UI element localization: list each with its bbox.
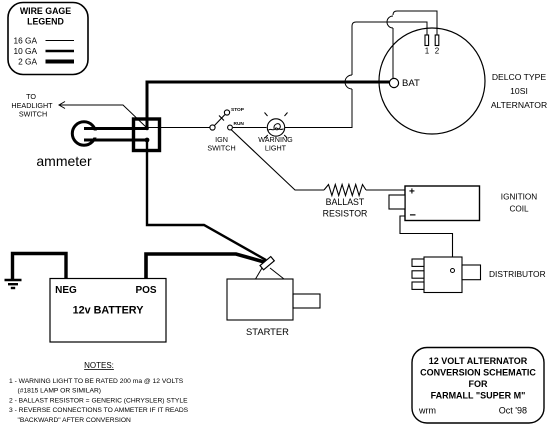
ballast resistor bbox=[324, 185, 366, 196]
svg-text:SWITCH: SWITCH bbox=[19, 110, 47, 119]
svg-text:16 GA: 16 GA bbox=[13, 36, 37, 46]
node upper (headlight/ign junction) bbox=[145, 127, 149, 131]
node lower (ammeter/starter junction) bbox=[145, 138, 150, 143]
ground symbol bbox=[5, 279, 22, 282]
svg-text:FOR: FOR bbox=[469, 379, 488, 389]
legend line 2 GA bbox=[46, 60, 75, 64]
svg-text:Oct '98: Oct '98 bbox=[499, 406, 527, 416]
starter body bbox=[227, 279, 293, 320]
terminal block bbox=[134, 119, 160, 151]
terminal 2 bbox=[435, 35, 439, 46]
svg-text:1: 1 bbox=[425, 47, 430, 56]
svg-text:FARMALL "SUPER M": FARMALL "SUPER M" bbox=[431, 391, 526, 401]
starter post mount lines bbox=[256, 268, 263, 279]
wire hop over BAT wire bbox=[345, 75, 352, 89]
warning light filament bbox=[268, 124, 283, 131]
svg-text:1 - WARNING LIGHT TO BE RATED: 1 - WARNING LIGHT TO BE RATED 200 ma @ 1… bbox=[9, 378, 184, 385]
svg-text:3 - REVERSE CONNECTIONS TO AMM: 3 - REVERSE CONNECTIONS TO AMMETER IF IT… bbox=[9, 407, 189, 414]
distributor contact bbox=[451, 269, 455, 273]
svg-text:WIRE GAGE: WIRE GAGE bbox=[20, 6, 71, 16]
svg-text:TO: TO bbox=[26, 92, 36, 101]
warning light bbox=[267, 119, 284, 136]
wire terminal 2 to BAT sense bbox=[393, 11, 437, 35]
svg-text:12v BATTERY: 12v BATTERY bbox=[73, 305, 145, 317]
svg-text:"BACKWARD" AFTER CONVERSION: "BACKWARD" AFTER CONVERSION bbox=[18, 417, 132, 424]
wire NEG to ground (2 GA) bbox=[13, 254, 67, 280]
ignition coil box bbox=[405, 186, 480, 221]
svg-text:RESISTOR: RESISTOR bbox=[323, 209, 368, 219]
svg-text:STOP: STOP bbox=[231, 107, 245, 113]
svg-text:STARTER: STARTER bbox=[246, 326, 289, 337]
wire warning light to terminal 1 (right, up, top run) bbox=[285, 89, 352, 128]
svg-text:+: + bbox=[409, 187, 415, 198]
svg-text:POS: POS bbox=[135, 285, 156, 296]
svg-text:BALLAST: BALLAST bbox=[326, 197, 365, 207]
svg-text:DELCO TYPE: DELCO TYPE bbox=[492, 72, 547, 82]
title block bbox=[412, 348, 544, 424]
svg-text:BAT: BAT bbox=[402, 78, 420, 89]
svg-text:SWITCH: SWITCH bbox=[207, 144, 235, 153]
svg-text:DISTRIBUTOR: DISTRIBUTOR bbox=[489, 269, 546, 279]
svg-text:12 VOLT ALTERNATOR: 12 VOLT ALTERNATOR bbox=[429, 356, 528, 366]
alternator body bbox=[379, 28, 485, 134]
wire block to ign switch bbox=[147, 127, 210, 129]
ign switch stop terminal bbox=[224, 110, 229, 115]
wire gage legend box bbox=[8, 3, 88, 75]
svg-text:NEG: NEG bbox=[55, 285, 77, 296]
svg-text:10 GA: 10 GA bbox=[13, 46, 37, 56]
ammeter bbox=[72, 122, 95, 145]
starter terminal post bbox=[260, 257, 274, 270]
distributor right tab bbox=[462, 265, 481, 280]
wire to headlight switch (arrow) bbox=[59, 102, 65, 109]
svg-text:ALTERNATOR: ALTERNATOR bbox=[491, 100, 547, 110]
ign switch lever bbox=[214, 115, 225, 127]
distributor prongs bbox=[412, 259, 424, 266]
wire POS to starter (2 GA) bbox=[146, 254, 266, 279]
legend line 10 GA bbox=[46, 50, 75, 53]
wire ammeter top to junction bbox=[84, 127, 147, 130]
wire ammeter bottom to junction bbox=[84, 139, 147, 142]
BAT terminal bbox=[389, 78, 398, 87]
wire resistor to coil + bbox=[366, 189, 405, 191]
battery box bbox=[50, 279, 166, 343]
svg-text:LIGHT: LIGHT bbox=[265, 144, 287, 153]
wire hop over terminal-1 wire bbox=[387, 16, 393, 28]
svg-text:2 GA: 2 GA bbox=[18, 57, 37, 67]
svg-text:ammeter: ammeter bbox=[36, 153, 92, 169]
terminal 1 bbox=[425, 35, 429, 46]
svg-text:10SI: 10SI bbox=[510, 86, 528, 96]
svg-text:NOTES:: NOTES: bbox=[84, 361, 114, 370]
svg-text:2: 2 bbox=[435, 47, 440, 56]
svg-text:RUN: RUN bbox=[234, 121, 245, 127]
wire run terminal to ballast resistor bbox=[231, 130, 324, 191]
svg-text:LEGEND: LEGEND bbox=[27, 17, 64, 27]
svg-text:IGNITION: IGNITION bbox=[501, 193, 537, 202]
legend line 16 GA bbox=[46, 40, 75, 42]
svg-text:(#1815 LAMP OR SIMILAR): (#1815 LAMP OR SIMILAR) bbox=[18, 388, 102, 395]
svg-text:COIL: COIL bbox=[509, 205, 529, 214]
svg-text:CONVERSION SCHEMATIC: CONVERSION SCHEMATIC bbox=[420, 368, 536, 378]
wire run terminal to warning light bbox=[233, 127, 267, 129]
wire block top to BAT (10 GA) bbox=[147, 82, 390, 129]
ign switch run terminal bbox=[228, 125, 233, 130]
wire coil - to distributor bbox=[400, 216, 453, 269]
svg-text:wrm: wrm bbox=[418, 406, 436, 416]
starter nose bbox=[293, 294, 320, 308]
distributor body bbox=[424, 257, 462, 293]
coil side tab bbox=[389, 195, 405, 209]
warning light rays bbox=[265, 113, 268, 117]
svg-text:−: − bbox=[410, 210, 416, 222]
wire block bottom down to starter (10 GA) bbox=[147, 140, 266, 260]
ign switch pivot terminal bbox=[210, 125, 215, 130]
svg-text:2 - BALLAST RESISTOR = GENERIC: 2 - BALLAST RESISTOR = GENERIC (CHRYSLER… bbox=[9, 397, 188, 404]
